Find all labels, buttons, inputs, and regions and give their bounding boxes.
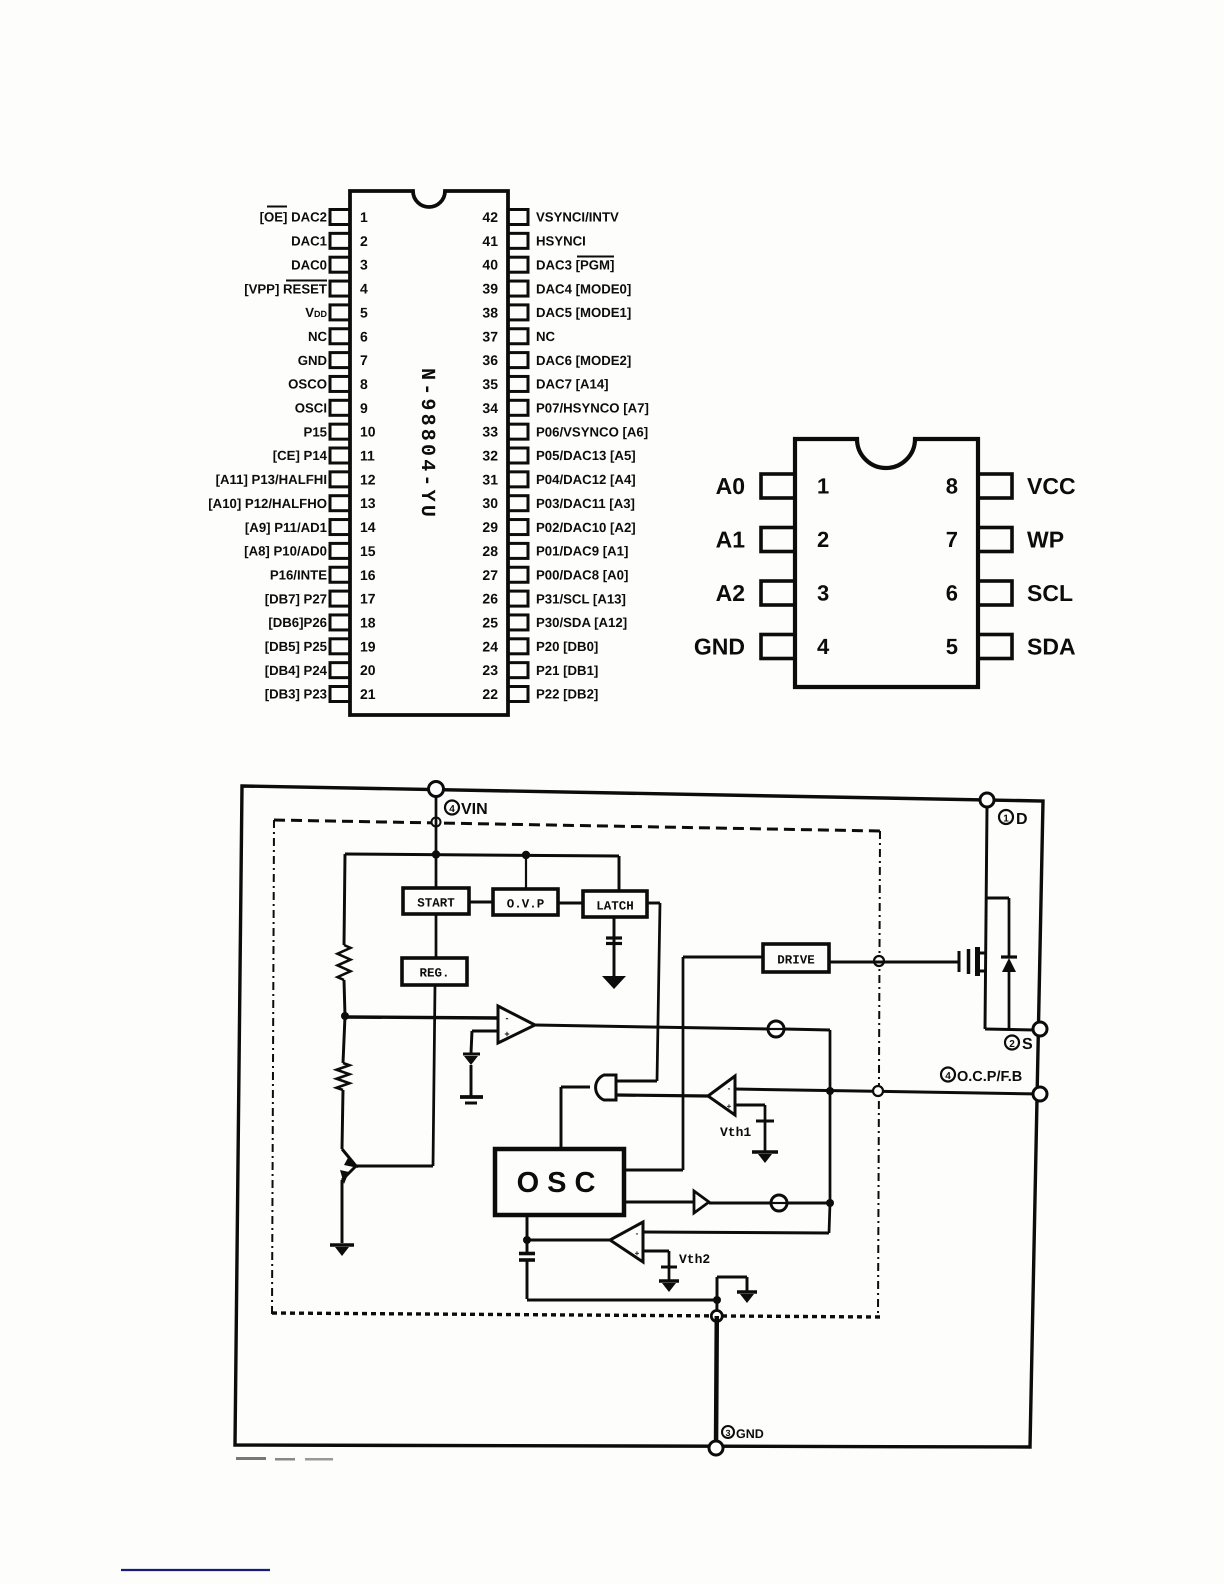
pin circle on dashed boundary (VIN) (432, 818, 441, 827)
U2 pin 4 (761, 634, 830, 659)
U1 pin 27 label (536, 567, 628, 582)
svg-text:[A10] P12/HALFHO: [A10] P12/HALFHO (208, 496, 327, 511)
U1 pin 38 label (536, 305, 631, 320)
Vth2 label (679, 1252, 710, 1267)
U2 pin 6 (946, 581, 1012, 606)
svg-text:2: 2 (360, 233, 368, 249)
U1 pin 15 label (244, 544, 327, 559)
U1 part number (vertical) (415, 368, 438, 520)
svg-text:A2: A2 (716, 580, 745, 606)
svg-text:[DB6]P26: [DB6]P26 (268, 615, 327, 630)
svg-text:2: 2 (817, 527, 829, 552)
svg-text:36: 36 (482, 352, 498, 368)
wire A1 output (535, 1025, 769, 1029)
svg-text:31: 31 (482, 471, 498, 487)
AND gate G1 (mirrored) (596, 1075, 616, 1100)
U1 pin 16 label (270, 567, 327, 582)
O.C.P/F.B label (941, 1068, 1022, 1086)
wire VIN down (435, 796, 438, 888)
U1 pin 24 label (536, 639, 598, 654)
wire OCP/FB line (735, 1089, 1040, 1094)
svg-text:14: 14 (360, 519, 376, 535)
U2 pin 3 (761, 581, 829, 606)
U1 pin 32 (482, 448, 528, 464)
svg-text:GND: GND (694, 634, 745, 660)
wire DRIVE output to MOSFET gate (829, 961, 958, 964)
svg-text:OSCO: OSCO (288, 377, 327, 392)
svg-text:Vth1: Vth1 (720, 1125, 751, 1140)
junction node divider (341, 1012, 349, 1020)
svg-text:VIN: VIN (461, 801, 488, 818)
svg-text:OSC: OSC (517, 1167, 604, 1199)
wire START-O.V.P (469, 901, 493, 904)
U1 pin 23 label (536, 663, 598, 678)
svg-text:3: 3 (817, 581, 829, 606)
wire Q1 emitter down (341, 1180, 344, 1243)
dashed internal boundary box (272, 820, 880, 1317)
U1 pin 29 (482, 519, 528, 535)
U1 pin 23 (482, 662, 528, 678)
U1 pin 33 (482, 424, 528, 440)
U1 pin 35 label (536, 377, 609, 392)
U1 pin 18 (330, 614, 376, 630)
svg-text:HSYNCI: HSYNCI (536, 234, 586, 249)
ground under D1 (460, 1097, 483, 1103)
svg-text:DAC0: DAC0 (291, 257, 327, 272)
wire hook to internal ground (717, 1277, 747, 1300)
S label (1005, 1036, 1033, 1054)
svg-text:P02/DAC10 [A2]: P02/DAC10 [A2] (536, 520, 636, 535)
wire R2 to transistor Q1 collector (342, 1090, 343, 1149)
wire A2 + input stub (735, 1105, 765, 1121)
wire OSC bottom pin (526, 1215, 529, 1240)
op-amp A2 (Vth1 comparator, points left) (708, 1076, 735, 1115)
wire GND heavy lead (714, 1316, 719, 1448)
U1 pin 39 (482, 281, 528, 297)
svg-text:1: 1 (817, 474, 829, 499)
svg-text:D: D (1016, 811, 1028, 828)
U1 pin 13 (330, 495, 376, 511)
U1 pin 12 (330, 471, 376, 487)
wire A1 + input (471, 1031, 498, 1053)
Vth1 label (720, 1125, 751, 1140)
U2 pin 8 (946, 474, 1012, 499)
wire LATCH down (613, 917, 616, 976)
U2 pin 8 label VCC (1027, 473, 1076, 499)
svg-text:32: 32 (482, 448, 498, 464)
U2 pin 5 label SDA (1027, 634, 1076, 660)
svg-text:OSCI: OSCI (295, 401, 327, 416)
D label (999, 810, 1028, 828)
svg-text:VCC: VCC (1027, 473, 1076, 499)
svg-text:DAC1: DAC1 (291, 234, 327, 249)
svg-text:20: 20 (360, 662, 376, 678)
U1 pin 2 label (291, 234, 327, 249)
svg-text:8: 8 (946, 474, 958, 499)
svg-text:4: 4 (817, 634, 830, 659)
block START (403, 888, 469, 914)
footer rule (121, 1569, 270, 1571)
wire OSC to DRIVE (624, 957, 763, 1170)
VIN label (445, 801, 488, 819)
svg-text:VSYNCI/INTV: VSYNCI/INTV (536, 210, 619, 225)
U1 pin 40 (482, 257, 528, 273)
U1 pin 37 (482, 328, 528, 344)
wire G1 bottom input from comparator Vth1 (616, 1095, 708, 1096)
svg-text:27: 27 (482, 567, 498, 583)
U1 pin 31 (482, 471, 528, 487)
IC U2 8-pin DIP body (795, 439, 978, 687)
svg-text:[DB4] P24: [DB4] P24 (265, 663, 328, 678)
svg-text:O.V.P: O.V.P (507, 898, 545, 912)
svg-text:DAC6 [MODE2]: DAC6 [MODE2] (536, 353, 631, 368)
current source CS2 (771, 1195, 787, 1211)
svg-text:O.C.P/F.B: O.C.P/F.B (957, 1069, 1022, 1085)
U1 pin 4 label (244, 281, 327, 297)
svg-text:17: 17 (360, 591, 376, 607)
wire source line to S node (985, 1029, 1034, 1030)
wire D1 to ground (470, 1065, 473, 1096)
svg-text:2: 2 (1009, 1039, 1015, 1050)
diode D2 (body diode) (1001, 957, 1017, 972)
svg-text:[CE] P14: [CE] P14 (273, 448, 328, 463)
U1 pin 5 label (305, 305, 327, 320)
svg-text:10: 10 (360, 424, 376, 440)
U1 pin 28 (482, 543, 528, 559)
svg-text:11: 11 (360, 448, 375, 464)
svg-text:[DB7] P27: [DB7] P27 (265, 591, 327, 606)
U1 pin 35 (482, 376, 528, 392)
U1 pin 14 label (245, 520, 327, 535)
svg-text:P16/INTE: P16/INTE (270, 567, 327, 582)
svg-text:REG.: REG. (419, 967, 449, 981)
svg-text:P15: P15 (304, 424, 327, 439)
U2 pin 4 label GND (694, 634, 745, 660)
svg-text:19: 19 (360, 638, 376, 654)
U1 pin 41 label (536, 234, 586, 249)
svg-text:Vth2: Vth2 (679, 1252, 710, 1267)
U1 pin 7 label (298, 353, 327, 368)
U1 pin 32 label (536, 448, 636, 463)
svg-text:38: 38 (482, 304, 498, 320)
node VIN (pin) (429, 782, 444, 797)
U1 pin 40 label (536, 257, 614, 273)
wire body diode branch (985, 898, 1009, 1029)
U1 pin 21 label (265, 687, 327, 702)
wire A3 output to OSC bottom (527, 1239, 610, 1242)
U1 pin 20 label (265, 663, 328, 678)
wire CS1 to right rail (784, 1029, 830, 1091)
node S (pin) (1033, 1022, 1047, 1036)
U1 pin 10 label (304, 424, 327, 439)
svg-text:4: 4 (945, 1071, 951, 1082)
svg-text:P06/VSYNCO [A6]: P06/VSYNCO [A6] (536, 424, 648, 439)
svg-text:8: 8 (360, 376, 368, 392)
op-amp A1 error comparator (498, 1006, 535, 1043)
svg-text:37: 37 (482, 328, 498, 344)
U1 pin 11 (330, 448, 375, 464)
junction (713, 1296, 721, 1304)
svg-text:GND: GND (298, 353, 327, 368)
svg-text:35: 35 (482, 376, 498, 392)
node OCP/FB (pin) (1033, 1087, 1047, 1101)
scan smudge (236, 1457, 333, 1461)
block O.V.P (493, 889, 558, 915)
svg-text:+: + (504, 1029, 509, 1039)
wire G1 output to OSC (561, 1087, 590, 1149)
wire bus to O.V.P (525, 855, 527, 889)
U1 pin 9 (330, 400, 368, 416)
svg-text:4: 4 (449, 804, 455, 815)
wire REG down to Q1 base (433, 985, 435, 1166)
ground under Vth2 (659, 1281, 679, 1292)
U1 pin 4 (330, 281, 368, 297)
svg-text:-: - (636, 1229, 639, 1238)
svg-text:40: 40 (482, 257, 498, 273)
svg-text:42: 42 (482, 209, 498, 225)
svg-text:S: S (1022, 1036, 1033, 1053)
svg-text:[A11] P13/HALFHI: [A11] P13/HALFHI (216, 472, 327, 487)
U1 pin 25 label (536, 615, 627, 630)
wire drain line (985, 807, 987, 1029)
svg-text:3: 3 (725, 1428, 730, 1438)
svg-text:-: - (506, 1013, 509, 1023)
svg-text:P07/HSYNCO [A7]: P07/HSYNCO [A7] (536, 401, 649, 416)
svg-text:12: 12 (360, 471, 376, 487)
svg-text:1: 1 (1003, 814, 1009, 825)
U1 pin 24 (482, 638, 528, 654)
svg-text:34: 34 (482, 400, 498, 416)
current source CS1 (768, 1021, 784, 1037)
svg-text:3: 3 (360, 257, 368, 273)
wire C1 to bottom rail (527, 1260, 717, 1300)
svg-text:[OE] DAC2: [OE] DAC2 (260, 210, 327, 225)
wire Q1 base (356, 1165, 433, 1168)
U1 pin 16 (330, 567, 376, 583)
svg-text:A1: A1 (716, 527, 746, 553)
svg-text:NC: NC (536, 329, 556, 344)
svg-text:+: + (727, 1102, 732, 1111)
junction (522, 851, 530, 859)
GND label (722, 1426, 764, 1441)
outer border of IC block diagram (235, 786, 1043, 1447)
svg-text:P03/DAC11 [A3]: P03/DAC11 [A3] (536, 496, 635, 511)
U1 pin 36 label (536, 353, 631, 368)
svg-text:GND: GND (736, 1427, 764, 1441)
U1 pin 8 label (288, 377, 327, 392)
wire rail down to CS2 junction (829, 1091, 832, 1203)
svg-text:41: 41 (482, 233, 498, 249)
battery Vth1 (756, 1121, 774, 1151)
wire bus left drop (344, 854, 345, 945)
wire bus to LATCH (618, 856, 621, 891)
svg-text:[DB5] P25: [DB5] P25 (265, 639, 327, 654)
svg-text:[DB3] P23: [DB3] P23 (265, 687, 327, 702)
node D (pin) (980, 793, 994, 807)
buffer B1 (694, 1191, 709, 1213)
svg-text:SCL: SCL (1027, 580, 1073, 606)
U1 pin 34 label (536, 401, 649, 416)
svg-text:26: 26 (482, 591, 498, 607)
wire LATCH output (616, 903, 660, 1081)
svg-text:P30/SDA [A12]: P30/SDA [A12] (536, 615, 627, 630)
svg-text:39: 39 (482, 281, 498, 297)
svg-text:5: 5 (946, 634, 958, 659)
U1 pin 39 label (536, 281, 631, 296)
U2 pin 6 label SCL (1027, 580, 1073, 606)
svg-text:7: 7 (360, 352, 368, 368)
resistor R1 (338, 945, 351, 980)
wire CS2 to rail (787, 1202, 830, 1205)
U1 pin 34 (482, 400, 528, 416)
svg-text:NC: NC (308, 329, 328, 344)
svg-text:[A9] P11/AD1: [A9] P11/AD1 (245, 520, 327, 535)
svg-text:N-98804-YU: N-98804-YU (415, 368, 438, 520)
U2 pin 1 (761, 474, 829, 499)
U1 pin 21 (330, 686, 376, 702)
U1 pin 42 label (536, 210, 619, 225)
svg-text:6: 6 (360, 328, 368, 344)
U1 pin 1 label (260, 207, 327, 225)
U1 pin 13 label (208, 496, 327, 511)
U1 pin 6 (330, 328, 368, 344)
svg-text:P20 [DB0]: P20 [DB0] (536, 639, 598, 654)
wire OSC to buffer (624, 1201, 694, 1204)
U1 pin 30 label (536, 496, 635, 511)
wire buffer to CS2 (709, 1202, 771, 1205)
svg-text:[VPP] RESET: [VPP] RESET (244, 281, 327, 296)
U1 pin 33 label (536, 424, 648, 439)
capacitor under LATCH (606, 938, 622, 944)
svg-text:DAC5 [MODE1]: DAC5 [MODE1] (536, 305, 631, 320)
svg-text:25: 25 (482, 614, 498, 630)
U1 pin 30 (482, 495, 528, 511)
svg-text:SDA: SDA (1027, 634, 1076, 660)
U1 pin 42 (482, 209, 528, 225)
U1 pin 9 label (295, 401, 327, 416)
U1 pin 18 label (268, 615, 327, 630)
U1 pin 19 (330, 638, 376, 654)
battery Vth2 (661, 1267, 677, 1280)
svg-text:WP: WP (1027, 527, 1064, 553)
svg-text:[A8] P10/AD0: [A8] P10/AD0 (244, 544, 327, 559)
block DRIVE (763, 944, 829, 972)
U1 pin 36 (482, 352, 528, 368)
wire rail down to Vth2 input (643, 1203, 830, 1233)
U2 pin 2 label A1 (716, 527, 746, 553)
svg-text:28: 28 (482, 543, 498, 559)
pin circle on dashed boundary (GND) (711, 1311, 722, 1322)
U1 pin 1 (330, 209, 368, 225)
U1 pin 7 (330, 352, 368, 368)
U1 pin 5 (330, 304, 368, 320)
svg-text:13: 13 (360, 495, 376, 511)
U1 pin 17 (330, 591, 376, 607)
U1 pin 28 label (536, 544, 628, 559)
U1 pin 37 label (536, 329, 556, 344)
U1 pin 19 label (265, 639, 327, 654)
resistor R2 (337, 1063, 350, 1090)
capacitor C1 (519, 1240, 535, 1260)
wire START to REG (435, 914, 438, 958)
svg-text:DAC7 [A14]: DAC7 [A14] (536, 377, 609, 392)
svg-text:22: 22 (482, 686, 498, 702)
pin circle on dashed boundary (OCP) (873, 1086, 883, 1096)
wire junction to R2 (343, 1016, 345, 1063)
svg-text:-: - (728, 1084, 731, 1093)
U1 pin 26 (482, 591, 528, 607)
op-amp A3 (Vth2 comparator, points left) (610, 1222, 643, 1262)
transistor Q2 (power MOSFET) (959, 947, 986, 976)
wire R1 to junction (344, 980, 345, 1016)
U2 pin 7 (946, 527, 1012, 552)
diode reference D1 (463, 1054, 480, 1065)
node GND (pin) (709, 1441, 723, 1455)
block LATCH (583, 891, 647, 917)
svg-text:P01/DAC9 [A1]: P01/DAC9 [A1] (536, 544, 628, 559)
svg-text:P05/DAC13 [A5]: P05/DAC13 [A5] (536, 448, 636, 463)
svg-text:5: 5 (360, 304, 368, 320)
junction (826, 1199, 834, 1207)
svg-text:18: 18 (360, 614, 376, 630)
IC U1 42-pin DIP body (350, 191, 508, 715)
U1 pin 8 (330, 376, 368, 392)
svg-text:29: 29 (482, 519, 498, 535)
U1 pin 2 (330, 233, 368, 249)
svg-text:24: 24 (482, 638, 498, 654)
U1 pin 17 label (265, 591, 327, 606)
U1 pin 31 label (536, 472, 636, 487)
svg-text:15: 15 (360, 543, 376, 559)
svg-text:P00/DAC8 [A0]: P00/DAC8 [A0] (536, 567, 628, 582)
U1 pin 38 (482, 304, 528, 320)
ground under LATCH (602, 976, 626, 989)
U1 pin 14 (330, 519, 376, 535)
U1 pin 10 (330, 424, 376, 440)
svg-text:DAC4 [MODE0]: DAC4 [MODE0] (536, 281, 631, 296)
U2 pin 3 label A2 (716, 580, 745, 606)
U2 pin 2 (761, 527, 829, 552)
svg-text:9: 9 (360, 400, 368, 416)
U1 pin 3 label (291, 257, 327, 272)
svg-text:P21 [DB1]: P21 [DB1] (536, 663, 598, 678)
svg-text:21: 21 (360, 686, 376, 702)
ground (internal) (737, 1292, 757, 1303)
svg-text:DAC3 [PGM]: DAC3 [PGM] (536, 257, 614, 272)
block REG. (402, 958, 467, 985)
svg-text:23: 23 (482, 662, 498, 678)
svg-text:P31/SCL [A13]: P31/SCL [A13] (536, 591, 626, 606)
svg-text:6: 6 (946, 581, 958, 606)
U1 pin 12 label (216, 472, 327, 487)
U1 pin 27 (482, 567, 528, 583)
U1 pin 41 (482, 233, 528, 249)
svg-text:DRIVE: DRIVE (777, 954, 815, 968)
svg-text:A0: A0 (716, 473, 745, 499)
U1 pin 29 label (536, 520, 636, 535)
U1 pin 22 label (536, 687, 598, 702)
U1 pin 25 (482, 614, 528, 630)
wire A3 + input stub (643, 1251, 669, 1266)
transistor Q1 (340, 1149, 358, 1184)
wire divider to comparator A input (345, 1017, 498, 1018)
U1 pin 3 (330, 257, 368, 273)
svg-text:4: 4 (360, 281, 368, 297)
wire supply bus (345, 854, 619, 856)
ground under Vth1 (752, 1152, 778, 1163)
svg-text:7: 7 (946, 527, 958, 552)
wire O.V.P-LATCH (558, 902, 583, 905)
